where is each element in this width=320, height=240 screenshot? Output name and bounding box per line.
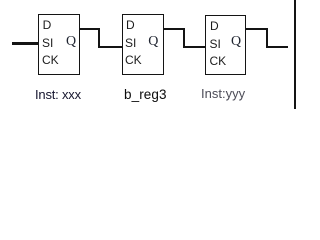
wire W3b: vertical step: [266, 28, 268, 48]
wire W0: scan-in stub to U1 SI: [12, 42, 38, 45]
U2 pin SI: [125, 37, 136, 49]
U3 label Inst:yyy: [201, 87, 245, 100]
flip-flop U3 body: [205, 15, 246, 76]
U3 pin SI: [210, 38, 221, 50]
wire W1b: vertical step: [98, 28, 100, 48]
wire W1c: into U2 SI: [98, 46, 123, 48]
wire W3c: scan-out stub: [266, 46, 288, 48]
U1 pin D: [43, 19, 52, 31]
U2 pin CK: [125, 54, 142, 66]
U2 pin Q: [148, 35, 158, 49]
wire W1a: U1 Q horizontal: [79, 28, 100, 30]
flip-flop U1 body: [38, 14, 81, 76]
wire W2a: U2 Q horizontal: [163, 28, 185, 30]
U1 pin Q: [66, 35, 76, 49]
wire W2b: vertical step: [183, 28, 185, 48]
wire W2c: into U3 SI: [183, 46, 206, 48]
U1 pin CK: [42, 54, 59, 66]
U1 pin SI: [42, 37, 53, 49]
U3 pin D: [210, 20, 219, 32]
flip-flop U2 body: [122, 14, 164, 75]
wire W3a: U3 Q horizontal: [245, 28, 268, 30]
U2 label b_reg3: [124, 88, 167, 102]
U2 pin D: [126, 19, 135, 31]
U1 label Inst: xxx: [35, 88, 81, 101]
U3 pin Q: [231, 35, 241, 49]
right border line: [294, 0, 295, 109]
U3 pin CK: [210, 55, 227, 67]
